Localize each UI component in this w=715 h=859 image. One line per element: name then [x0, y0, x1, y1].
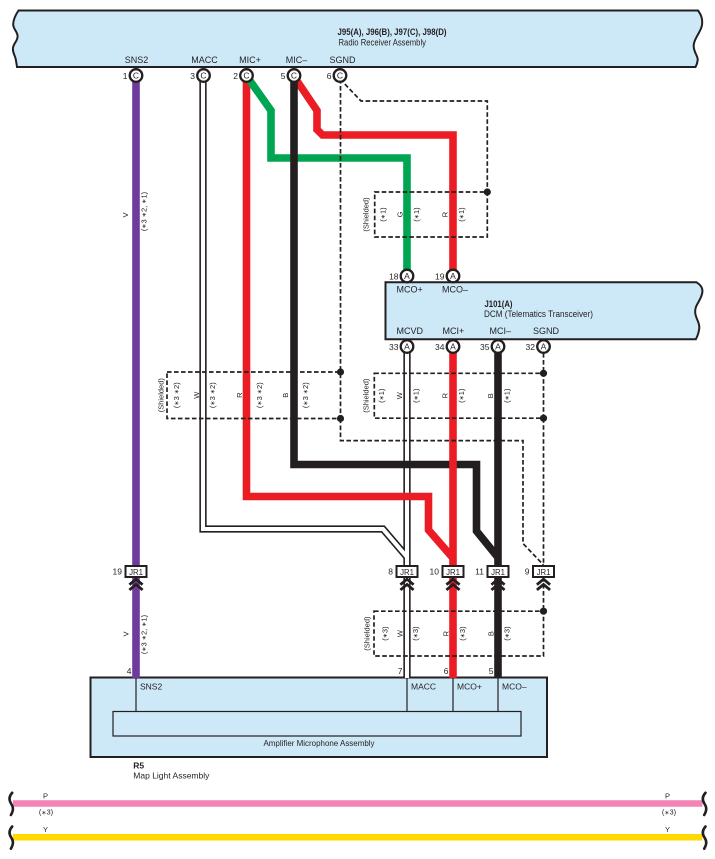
svg-text:(∗3 ∗2): (∗3 ∗2)	[172, 382, 181, 408]
svg-text:Y: Y	[665, 825, 670, 834]
wire R (red) DCM MCI+ to JR1 10 to amp pin 6	[449, 353, 457, 678]
svg-text:A: A	[450, 271, 456, 281]
svg-text:P: P	[43, 792, 48, 801]
dashed jumper from left shield box to JR1 9	[341, 419, 544, 566]
pin 6 C radio	[334, 69, 347, 82]
svg-text:5: 5	[281, 71, 286, 81]
svg-text:(∗1): (∗1)	[379, 207, 388, 222]
svg-text:G: G	[396, 211, 405, 217]
svg-text:W: W	[395, 391, 404, 399]
svg-text:18: 18	[389, 272, 399, 282]
junction dot right shield box top	[540, 370, 547, 377]
svg-text:(∗1): (∗1)	[457, 388, 466, 403]
pin 33 A DCM	[401, 340, 414, 353]
svg-text:MIC–: MIC–	[286, 55, 308, 65]
svg-text:MCI–: MCI–	[490, 326, 512, 336]
svg-text:V: V	[122, 631, 131, 636]
svg-text:(∗3 ∗2, ∗1): (∗3 ∗2, ∗1)	[140, 614, 149, 654]
svg-text:(∗3): (∗3)	[503, 626, 512, 641]
svg-text:MACC: MACC	[191, 55, 218, 65]
lower shield box (Shielded) around W R B amp wires	[374, 611, 544, 656]
svg-text:JR1: JR1	[491, 568, 505, 577]
connector banner J95/J96/J97/J98 Radio Receiver Assembly	[13, 11, 702, 68]
svg-text:Y: Y	[43, 825, 48, 834]
svg-text:C: C	[291, 70, 297, 80]
svg-text:34: 34	[435, 342, 445, 352]
wire W core	[203, 78, 407, 557]
svg-text:Map Light Assembly: Map Light Assembly	[133, 771, 210, 781]
svg-text:(∗1): (∗1)	[377, 388, 386, 403]
svg-text:MCO+: MCO+	[457, 682, 482, 692]
svg-text:(∗3): (∗3)	[458, 626, 467, 641]
pin 34 A DCM	[447, 340, 460, 353]
svg-text:2: 2	[233, 71, 238, 81]
continuation squiggle pink left	[9, 793, 12, 815]
svg-text:7: 7	[398, 666, 403, 676]
right shield box (Shielded) around W R B DCM wires	[374, 373, 543, 418]
wire B (black) MIC- radio down to JR1 11	[294, 79, 498, 558]
svg-text:SNS2: SNS2	[140, 682, 162, 692]
svg-text:SGND: SGND	[533, 326, 560, 336]
shield drain dashed from pin 6 to upper shield box	[340, 79, 487, 192]
shield drain dashed DCM pin 32 down to JR1 9	[543, 353, 545, 373]
svg-text:C: C	[337, 70, 343, 80]
svg-text:6: 6	[327, 71, 332, 81]
svg-text:C: C	[133, 70, 139, 80]
svg-text:W: W	[396, 629, 405, 637]
svg-text:(Shielded): (Shielded)	[363, 616, 372, 651]
amplifier microphone assembly box	[91, 678, 548, 758]
svg-text:JR1: JR1	[129, 568, 143, 577]
svg-text:(Shielded): (Shielded)	[361, 197, 370, 232]
svg-text:(∗3 ∗2): (∗3 ∗2)	[208, 382, 217, 408]
svg-text:SNS2: SNS2	[125, 55, 149, 65]
svg-text:JR1: JR1	[537, 568, 551, 577]
svg-text:MCO–: MCO–	[442, 285, 468, 295]
wire V (violet) SNS2 radio to JR1	[132, 79, 140, 566]
svg-text:MCI+: MCI+	[443, 326, 465, 336]
junction dot upper shield box	[484, 188, 491, 195]
chevron JR1 9	[537, 579, 550, 590]
chevron JR1 8	[400, 579, 413, 590]
junction dot left shield box bottom	[337, 415, 344, 422]
wire W (white) MACC radio to JR1 8 : outline	[203, 79, 407, 557]
continuation squiggle yellow left	[9, 827, 12, 849]
svg-text:MCO–: MCO–	[502, 682, 527, 692]
wire G (green) radio MIC+ to DCM MCO+ pin 18	[248, 78, 407, 270]
svg-text:MIC+: MIC+	[239, 55, 261, 65]
junction connector JR1 19	[126, 566, 147, 577]
wire V (violet) JR1 to amp pin 4	[132, 577, 140, 678]
pin 18 A DCM	[401, 270, 414, 283]
continuation squiggle yellow right	[703, 827, 706, 849]
svg-text:B: B	[281, 393, 290, 398]
svg-text:R: R	[441, 211, 450, 217]
shield drain dashed pin 6 straight down to left shield box	[340, 79, 342, 372]
chevron JR1 19	[129, 579, 142, 590]
amp pin stub MCO+	[452, 678, 454, 712]
svg-text:P: P	[665, 792, 670, 801]
wire R (red) radio MIC- to DCM MCO- pin 19	[295, 78, 453, 270]
svg-text:MCO+: MCO+	[397, 285, 423, 295]
svg-text:(Shielded): (Shielded)	[362, 378, 371, 413]
svg-text:J101(A): J101(A)	[485, 299, 513, 309]
svg-text:33: 33	[389, 342, 399, 352]
junction dot lower shield box top	[540, 608, 547, 615]
svg-text:A: A	[450, 341, 456, 351]
svg-text:(∗3 ∗2): (∗3 ∗2)	[301, 382, 310, 408]
svg-text:(∗1): (∗1)	[457, 207, 466, 222]
junction connector JR1 11	[488, 566, 509, 577]
connector banner J101(A) DCM Telematics Transceiver	[386, 282, 703, 339]
svg-text:JR1: JR1	[400, 568, 414, 577]
amplifier inner box	[113, 712, 521, 737]
svg-text:JR1: JR1	[446, 568, 460, 577]
svg-text:(∗1): (∗1)	[412, 207, 421, 222]
wire W (white) MCVD DCM to JR1 8 and to amp pin 7 : outline	[403, 353, 410, 678]
svg-text:DCM (Telematics Transceiver): DCM (Telematics Transceiver)	[484, 309, 593, 319]
junction connector JR1 10	[443, 566, 464, 577]
svg-text:W: W	[192, 391, 201, 399]
svg-text:SGND: SGND	[329, 55, 356, 65]
svg-text:8: 8	[388, 567, 393, 577]
upper shield box (Shielded) around G and R	[375, 192, 488, 237]
pin 1 C radio	[130, 69, 143, 82]
svg-text:(∗1): (∗1)	[503, 388, 512, 403]
svg-text:R5: R5	[133, 761, 144, 771]
svg-text:(∗3 ∗2, ∗1): (∗3 ∗2, ∗1)	[140, 191, 149, 231]
amp pin stub SNS2	[135, 678, 137, 712]
chevron JR1 11	[491, 579, 504, 590]
shield drain dashed JR1 9 to lower shield box	[543, 577, 545, 611]
pin 19 A DCM	[447, 270, 460, 283]
svg-text:V: V	[121, 212, 130, 217]
svg-text:(Shielded): (Shielded)	[156, 378, 165, 413]
left shield box (Shielded) around W R B radio wires	[167, 372, 341, 419]
svg-text:9: 9	[525, 567, 530, 577]
amp pin stub MACC	[406, 678, 408, 712]
junction dot left shield box top	[337, 368, 344, 375]
svg-text:J95(A), J96(B), J97(C), J98(D): J95(A), J96(B), J97(C), J98(D)	[338, 27, 447, 37]
svg-text:MCVD: MCVD	[397, 326, 424, 336]
svg-text:6: 6	[444, 666, 449, 676]
svg-text:5: 5	[489, 666, 494, 676]
svg-text:B: B	[486, 393, 495, 398]
svg-text:10: 10	[430, 567, 440, 577]
svg-text:R: R	[442, 630, 451, 636]
svg-text:A: A	[404, 341, 410, 351]
svg-text:19: 19	[435, 272, 445, 282]
svg-text:C: C	[243, 70, 249, 80]
svg-text:(∗3): (∗3)	[39, 808, 54, 817]
svg-text:R: R	[441, 392, 450, 398]
pin 2 C radio	[240, 69, 253, 82]
continuation squiggle pink right	[703, 793, 706, 815]
svg-text:(∗3): (∗3)	[381, 626, 390, 641]
svg-text:B: B	[487, 631, 496, 636]
svg-text:11: 11	[475, 567, 484, 577]
pin 3 C radio	[197, 69, 210, 82]
wire B (black) DCM MCI- to JR1 11 to amp pin 5	[494, 353, 502, 678]
junction dot right shield box bottom	[540, 415, 547, 422]
junction connector JR1 8	[397, 566, 418, 577]
amp pin stub MCO-	[497, 678, 499, 712]
svg-text:32: 32	[526, 342, 536, 352]
wire R (red) MIC+ radio down to JR1 10	[247, 79, 453, 558]
svg-text:19: 19	[113, 567, 123, 577]
svg-text:(∗3): (∗3)	[411, 626, 420, 641]
svg-text:Amplifier Microphone Assembly: Amplifier Microphone Assembly	[264, 738, 376, 748]
svg-text:A: A	[495, 341, 501, 351]
pin 5 C radio	[288, 69, 301, 82]
svg-text:(∗1): (∗1)	[412, 388, 421, 403]
svg-text:(∗3): (∗3)	[662, 808, 677, 817]
chevron JR1 10	[446, 579, 459, 590]
junction connector JR1 9	[533, 566, 554, 577]
svg-text:Radio Receiver Assembly: Radio Receiver Assembly	[339, 38, 427, 48]
pin 35 A DCM	[492, 340, 505, 353]
wire P (pink) bottom	[13, 800, 702, 807]
svg-text:4: 4	[127, 666, 132, 676]
wire Y (yellow) bottom	[13, 834, 702, 841]
svg-text:A: A	[541, 341, 547, 351]
svg-text:C: C	[200, 70, 206, 80]
pin 32 A DCM	[537, 340, 550, 353]
svg-text:35: 35	[480, 342, 490, 352]
svg-text:R: R	[235, 392, 244, 398]
svg-text:A: A	[404, 271, 410, 281]
svg-text:(∗3 ∗2): (∗3 ∗2)	[255, 382, 264, 408]
svg-text:1: 1	[123, 71, 128, 81]
svg-text:3: 3	[190, 71, 195, 81]
svg-text:MACC: MACC	[411, 682, 436, 692]
